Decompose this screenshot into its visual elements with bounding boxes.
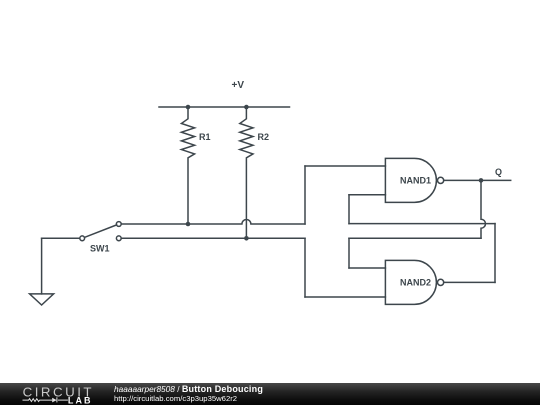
footer text line 1 xyxy=(114,385,263,394)
switch SW1 common terminal xyxy=(80,236,85,241)
svg-text:+V: +V xyxy=(232,80,245,91)
svg-text:LAB: LAB xyxy=(68,396,93,405)
svg-text:R1: R1 xyxy=(199,132,211,142)
wire NAND1 output down with hop over wire A xyxy=(481,180,486,238)
junction dot R2/bottom wire xyxy=(244,236,249,241)
junction dot R1/top wire xyxy=(186,222,191,227)
wire ground riser vertical xyxy=(41,238,43,294)
wire NAND2 output up xyxy=(494,224,496,283)
switch SW1 lever xyxy=(84,225,116,238)
ground xyxy=(30,294,54,305)
wire to NAND1 input A xyxy=(305,165,385,167)
resistor R1 xyxy=(181,107,194,224)
wire A feedback NAND2 out to left xyxy=(349,223,495,225)
NAND1 output bubble xyxy=(438,177,444,183)
wire riser up to NAND1 input A xyxy=(304,166,306,224)
resistor R2 xyxy=(240,107,253,238)
wire top throw to riser with hop over R2 xyxy=(121,220,305,225)
wire riser down to NAND2 input B xyxy=(304,238,306,297)
wire feedback up to NAND1 input B xyxy=(348,195,350,224)
wire to NAND1 input B xyxy=(349,194,385,196)
wire NAND2 output right xyxy=(444,281,495,283)
nand gate NAND1 xyxy=(385,158,436,202)
svg-text:NAND2: NAND2 xyxy=(400,278,431,288)
wire feedback NAND1 out to left xyxy=(349,237,481,239)
wire common to ground riser xyxy=(42,237,80,239)
footer bar xyxy=(0,383,540,405)
junction dot NAND1 output xyxy=(479,178,484,183)
junction dot rail/R2 xyxy=(244,105,249,110)
junction dot rail/R1 xyxy=(186,105,191,110)
svg-text:SW1: SW1 xyxy=(90,244,110,254)
CircuitLab logo xyxy=(21,383,99,405)
svg-text:R2: R2 xyxy=(258,132,270,142)
wire bottom throw to riser xyxy=(121,237,305,239)
wire to NAND2 input B xyxy=(305,296,385,298)
+V supply rail xyxy=(159,106,290,108)
wire feedback down to NAND2 input A xyxy=(348,238,350,268)
svg-text:Q: Q xyxy=(495,167,502,177)
footer text line 2 xyxy=(114,395,237,403)
NAND2 output bubble xyxy=(438,279,444,285)
wire NAND1 output to Q xyxy=(444,179,511,181)
nand gate NAND2 xyxy=(385,260,436,304)
svg-text:NAND1: NAND1 xyxy=(400,176,431,186)
switch SW1 throw terminal bottom xyxy=(116,236,121,241)
switch SW1 throw terminal top xyxy=(116,222,121,227)
wire to NAND2 input A xyxy=(349,267,385,269)
